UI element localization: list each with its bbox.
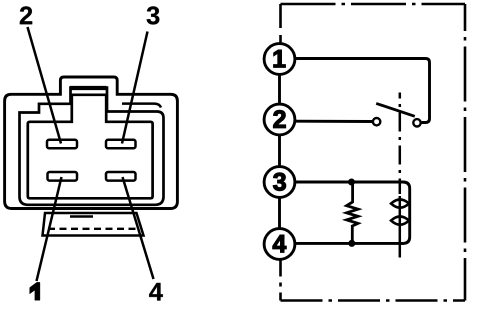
wire terminal1-terminal2 xyxy=(278,75,281,105)
terminal 4 xyxy=(264,229,295,260)
switch fixed contact (open circle) xyxy=(413,119,420,126)
switch blade xyxy=(376,103,415,116)
leader to pin 4 xyxy=(123,177,154,279)
relay case boundary left lower (dash-dot) xyxy=(279,261,282,301)
terminal 3 xyxy=(264,167,295,198)
relay case boundary left upper (dash-dot) xyxy=(279,4,282,43)
terminal 2 xyxy=(264,104,295,135)
label 1 xyxy=(30,282,40,300)
label 4 xyxy=(149,283,163,301)
switch pole contact (open circle) xyxy=(373,118,380,125)
leader to pin 2 xyxy=(28,27,62,144)
wire from terminal 4 to coil xyxy=(293,242,405,245)
lower block inner tick xyxy=(70,215,93,218)
label 3 xyxy=(147,6,160,24)
wire from terminal 2 to switch pole xyxy=(295,120,372,123)
connector outer housing outline xyxy=(5,77,178,209)
pin slot 3 (upper right) xyxy=(106,140,136,148)
connector cavity rectangle with key notch xyxy=(28,95,153,199)
pin slot 2 (upper left) xyxy=(47,140,77,148)
wire from terminal 1 to switch fixed contact xyxy=(295,59,430,123)
relay case boundary top (dash-dot) xyxy=(281,3,466,6)
resistor (shunt) xyxy=(347,182,358,243)
pin slot 4 (lower right) xyxy=(106,172,136,181)
connector lower block xyxy=(43,213,144,236)
wire from terminal 3 to coil xyxy=(295,181,403,184)
lower block dashed lock line xyxy=(48,228,136,230)
leader to pin 1 xyxy=(37,177,62,281)
key tab thick top edge xyxy=(70,86,107,90)
relay coil outline xyxy=(399,182,410,243)
mechanical link to coil (dash-dot) xyxy=(399,93,402,195)
relay case boundary bottom (dash-dot) xyxy=(281,299,466,302)
connector inner housing outline (stepped) xyxy=(20,88,164,205)
label 2 xyxy=(20,6,32,24)
terminal 1 xyxy=(264,44,295,75)
leader to pin 3 xyxy=(122,32,148,144)
inner outline double segment top right xyxy=(122,104,161,108)
wire terminal2-terminal3 xyxy=(278,135,281,167)
relay case boundary right (dash-dot) xyxy=(464,4,467,301)
wire terminal3-terminal4 xyxy=(278,198,281,229)
relay coil loop upper xyxy=(391,200,409,208)
junction dot top of resistor xyxy=(348,179,355,186)
junction dot bottom of resistor xyxy=(348,240,355,247)
relay coil loop lower xyxy=(391,217,409,225)
pin slot 1 (lower left) xyxy=(48,172,78,181)
